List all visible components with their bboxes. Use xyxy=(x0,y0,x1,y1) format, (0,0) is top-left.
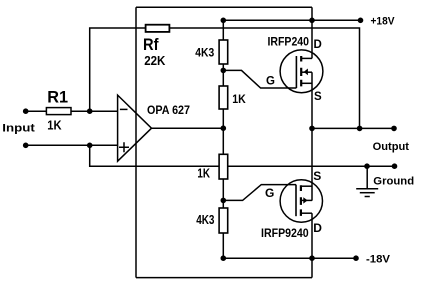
node ground terminal xyxy=(392,163,398,169)
node -18V chain junction xyxy=(221,255,227,261)
svg-text:G: G xyxy=(266,76,275,88)
wire input bottom to op-amp non-inverting input xyxy=(26,144,118,146)
node input terminal top xyxy=(23,108,29,114)
node op-amp output junction xyxy=(221,125,227,131)
wire upper gate xyxy=(223,70,296,88)
node output junction xyxy=(309,126,315,132)
svg-text:D: D xyxy=(314,39,322,51)
op-amp U1 triangle xyxy=(118,95,152,161)
wire lower gate xyxy=(223,185,296,201)
svg-text:IRFP240: IRFP240 xyxy=(268,36,310,48)
wire input top to op-amp inverting input xyxy=(26,110,118,112)
ground xyxy=(356,166,378,196)
svg-text:Input: Input xyxy=(2,123,35,135)
node +18V drain junction xyxy=(309,18,315,24)
svg-text:4K3: 4K3 xyxy=(196,212,214,227)
svg-text:Ground: Ground xyxy=(373,176,414,188)
svg-text:OPA 627: OPA 627 xyxy=(147,103,190,117)
node upper gate junction xyxy=(221,68,227,74)
resistor Rf xyxy=(146,25,170,32)
resistor 4K3 upper xyxy=(219,40,228,64)
svg-text:Output: Output xyxy=(373,141,410,153)
wire main vertical rail x=312 lower drain segment xyxy=(311,213,313,277)
svg-text:D: D xyxy=(313,221,322,235)
wire +18V rail xyxy=(223,19,360,21)
resistor 4K3 lower xyxy=(219,208,228,233)
transistor Q1 IRFP240 xyxy=(280,50,323,93)
wire ground line from + input xyxy=(90,145,395,166)
svg-text:1K: 1K xyxy=(232,92,246,106)
svg-text:IRFP9240: IRFP9240 xyxy=(261,226,309,240)
wire amplifier box outline xyxy=(136,7,312,277)
wire main vertical rail x=312 upper drain segment xyxy=(311,7,313,58)
transistor Q2 IRFP9240 xyxy=(280,180,322,222)
node +18V chain junction xyxy=(221,18,227,24)
svg-text:22K: 22K xyxy=(144,53,166,68)
svg-text:1K: 1K xyxy=(197,167,210,181)
node -18V terminal xyxy=(353,255,359,261)
svg-text:+18V: +18V xyxy=(371,16,396,28)
svg-text:G: G xyxy=(265,186,274,200)
wire output line xyxy=(312,127,394,129)
node ground junction xyxy=(364,163,370,169)
node -18V drain junction xyxy=(309,255,315,261)
node lower gate junction xyxy=(221,198,227,204)
wire resistor chain vertical xyxy=(222,20,224,258)
node +18V terminal xyxy=(358,18,364,24)
svg-text:S: S xyxy=(314,91,322,103)
wire -18V rail xyxy=(223,257,356,259)
node output terminal xyxy=(391,126,397,132)
resistor 1K lower xyxy=(219,154,228,179)
node inverting input junction xyxy=(87,108,93,114)
node input terminal bottom xyxy=(23,143,29,149)
svg-text:-18V: -18V xyxy=(366,254,391,266)
node non-inverting input junction xyxy=(87,143,93,149)
wire feedback loop (Rf net) xyxy=(90,28,360,128)
svg-text:R1: R1 xyxy=(47,88,68,107)
svg-text:1K: 1K xyxy=(47,118,62,133)
svg-text:4K3: 4K3 xyxy=(195,45,214,59)
node feedback output junction xyxy=(357,126,363,132)
resistor R1 xyxy=(46,108,71,115)
wire main vertical rail x=312 middle source segment xyxy=(311,72,313,200)
svg-text:S: S xyxy=(313,169,321,183)
wire op-amp output to resistor chain xyxy=(152,127,224,129)
svg-text:Rf: Rf xyxy=(143,35,159,54)
resistor 1K upper xyxy=(219,86,228,109)
